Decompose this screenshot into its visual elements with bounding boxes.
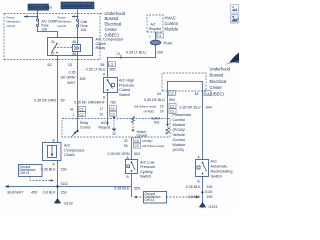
svg-text:Bussed: Bussed xyxy=(105,16,120,21)
svg-text:G102: G102 xyxy=(64,202,73,206)
svg-text:C3: C3 xyxy=(135,144,139,148)
UBEC 2 label xyxy=(210,67,231,97)
svg-text:B6: B6 xyxy=(101,63,105,67)
wire label 0.35 DK GRN/WHT 459 xyxy=(61,71,86,85)
svg-text:Compressor: Compressor xyxy=(64,148,85,152)
svg-text:C8: C8 xyxy=(68,63,72,67)
svg-text:(4T40E): (4T40E) xyxy=(144,110,154,114)
wire 59 relay 87 to compressor clutch xyxy=(57,56,59,143)
svg-text:DK GRN/: DK GRN/ xyxy=(61,76,76,80)
svg-text:0.35 BLK: 0.35 BLK xyxy=(41,168,56,172)
wire 459 relay 85 to PCM xyxy=(77,56,79,132)
wire label 0.35 DK GRN 603 xyxy=(108,152,140,156)
svg-text:C2: C2 xyxy=(170,110,174,114)
svg-text:Module: Module xyxy=(165,26,179,31)
A/C Automatic Recirculating Switch xyxy=(196,160,209,177)
svg-text:10: 10 xyxy=(160,104,164,108)
svg-text:Cell 10: Cell 10 xyxy=(7,24,16,28)
svg-text:0.35 BLK: 0.35 BLK xyxy=(186,185,201,189)
ground G103 xyxy=(200,203,218,210)
connector P100 xyxy=(150,40,172,45)
PCM terminal 20 C3 xyxy=(100,111,117,116)
relay label xyxy=(96,38,125,51)
wire label 0.35 BLK 150 xyxy=(186,185,213,189)
svg-text:Cycling: Cycling xyxy=(140,170,152,174)
fuse Cntrl 10A xyxy=(76,19,78,27)
wire label 0.35 BLK 150 xyxy=(41,168,67,172)
svg-text:30: 30 xyxy=(124,139,128,143)
PCM label xyxy=(173,112,192,152)
PCM dashed box xyxy=(62,119,170,138)
svg-text:Electrical: Electrical xyxy=(210,79,227,84)
svg-text:B3: B3 xyxy=(48,63,52,67)
UBEC box 2 dashed xyxy=(162,73,206,91)
svg-text:762: 762 xyxy=(110,101,116,105)
node B6 / C2 xyxy=(101,62,116,67)
header box HOT AT ALL TIMES xyxy=(28,4,52,10)
wire label 0.35 DK GRN 59 xyxy=(34,98,64,102)
svg-text:Clutch: Clutch xyxy=(64,153,75,157)
dashed pointer left to wire 559 xyxy=(134,196,144,198)
svg-text:0.35 DK BLU: 0.35 DK BLU xyxy=(180,106,201,110)
svg-text:(4T40E): (4T40E) xyxy=(142,139,152,143)
svg-text:0.35 BLK: 0.35 BLK xyxy=(114,187,129,191)
svg-text:A/C: A/C xyxy=(64,144,71,148)
svg-text:C3: C3 xyxy=(135,139,139,143)
svg-text:Test: Test xyxy=(154,121,160,125)
A/C High Pressure Cutout Switch xyxy=(104,78,118,93)
svg-text:(UBEC): (UBEC) xyxy=(210,91,225,96)
svg-text:A3: A3 xyxy=(157,92,161,96)
svg-text:L: L xyxy=(150,34,152,38)
wire 604 UBEC to recirculating switch xyxy=(202,97,204,160)
logo triangle (right edge) xyxy=(229,53,239,64)
svg-text:C1: C1 xyxy=(158,34,162,38)
svg-text:559: 559 xyxy=(134,187,140,191)
dashed pointer right to wire 150 xyxy=(167,196,200,198)
svg-text:C2: C2 xyxy=(111,107,115,111)
svg-text:42: 42 xyxy=(70,107,74,111)
wire 200 from P100 to cutout switch xyxy=(108,45,156,78)
svg-text:1: 1 xyxy=(73,113,75,117)
A/C request source inside HVAC module xyxy=(149,23,161,31)
PCM internal request sense line xyxy=(112,117,116,135)
svg-text:10A: 10A xyxy=(42,28,49,32)
svg-text:C3: C3 xyxy=(111,112,115,116)
svg-text:C1: C1 xyxy=(117,52,121,56)
terminal A4 C4 xyxy=(195,91,212,96)
svg-text:G103: G103 xyxy=(209,205,218,209)
wire 603 PCM to cycling switch xyxy=(131,137,133,160)
header box HOT IN RUN AND START xyxy=(61,2,94,9)
svg-text:450: 450 xyxy=(31,191,37,195)
svg-text:30: 30 xyxy=(51,40,55,44)
svg-text:0.35 DK GRN: 0.35 DK GRN xyxy=(34,98,56,102)
svg-text:Cell 14: Cell 14 xyxy=(20,171,30,175)
svg-text:Control: Control xyxy=(165,21,178,26)
svg-text:A/C High: A/C High xyxy=(119,79,134,83)
wire label 0.8 BLK 150 xyxy=(43,191,67,195)
svg-text:Electrical: Electrical xyxy=(105,22,122,27)
svg-text:Cell 14: Cell 14 xyxy=(145,198,155,202)
svg-text:0.35 DK BLU: 0.35 DK BLU xyxy=(144,98,165,102)
svg-text:HOT IN RUN AND START: HOT IN RUN AND START xyxy=(63,5,93,8)
svg-text:150: 150 xyxy=(207,185,213,189)
svg-text:Center: Center xyxy=(105,27,118,32)
svg-text:C2: C2 xyxy=(80,113,84,117)
PCM terminal 30 C3 (4T40E) xyxy=(124,138,152,143)
svg-text:604: 604 xyxy=(206,106,212,110)
svg-text:B: B xyxy=(53,138,55,142)
dashed pointer to clutch ground wire xyxy=(30,177,54,182)
splice S103 xyxy=(201,190,212,194)
svg-text:150: 150 xyxy=(61,168,67,172)
svg-text:Underhood: Underhood xyxy=(210,67,231,72)
svg-text:Switch: Switch xyxy=(119,93,130,97)
svg-text:Underhood: Underhood xyxy=(105,11,126,16)
PCM terminal (4T40E) 14 C2 xyxy=(144,109,177,114)
svg-text:WHT: WHT xyxy=(67,81,76,85)
wire cycling switch to splice xyxy=(131,174,133,198)
A/C Compressor Clutch xyxy=(43,143,62,161)
arrow to power distribution (right) xyxy=(72,15,79,17)
svg-text:Pressure: Pressure xyxy=(119,83,134,87)
svg-text:Automatic: Automatic xyxy=(211,165,228,169)
svg-text:C4: C4 xyxy=(205,92,209,96)
svg-text:0.35 LT BLU: 0.35 LT BLU xyxy=(86,68,106,72)
svg-text:HVAC: HVAC xyxy=(165,16,176,21)
svg-text:C2: C2 xyxy=(170,104,174,108)
relay mechanical dashed link xyxy=(54,47,72,49)
svg-text:59: 59 xyxy=(61,98,65,102)
inline connector C1 xyxy=(117,52,122,59)
svg-text:0.35 LT BLU: 0.35 LT BLU xyxy=(126,50,146,54)
PCM terminal 1 C2 xyxy=(73,112,86,117)
arrow to power distribution (left) xyxy=(24,15,38,17)
wire label 0.35 DK BLU 594 xyxy=(144,98,175,102)
wire recirc switch to ground G103 xyxy=(202,177,204,203)
wire clutch to splice S102 xyxy=(57,161,59,199)
svg-text:Pressure: Pressure xyxy=(140,165,155,169)
svg-text:Center: Center xyxy=(210,85,223,90)
svg-text:Request: Request xyxy=(99,125,111,129)
svg-text:0.35: 0.35 xyxy=(69,71,76,75)
HVAC Control Module dashed box xyxy=(147,15,163,32)
PCM terminal 55 C3 (All Others Used) xyxy=(124,143,164,148)
svg-text:(UBEC): (UBEC) xyxy=(105,32,120,37)
svg-text:S102: S102 xyxy=(61,182,69,186)
svg-text:14: 14 xyxy=(160,110,164,114)
wire label 0.35 DK GRN/WHT 762 xyxy=(74,101,116,105)
PCM terminal 17 C2 xyxy=(100,106,117,111)
ground G102 xyxy=(55,199,73,206)
relay coil xyxy=(73,38,81,56)
svg-text:(All Others Used): (All Others Used) xyxy=(134,104,156,108)
ground distribution reference box (right) xyxy=(144,192,167,204)
wire 594 UBEC to PCM switch test xyxy=(167,97,169,125)
svg-text:BLK/WHT: BLK/WHT xyxy=(8,191,25,195)
ground distribution reference box (left) xyxy=(19,165,43,177)
jumper wire inside UBEC 2 xyxy=(168,82,203,97)
wire from HOT IN RUN bus to fuse 2 xyxy=(77,10,79,20)
svg-text:A4: A4 xyxy=(195,92,199,96)
svg-text:Cell 10: Cell 10 xyxy=(58,24,67,28)
svg-text:200: 200 xyxy=(157,50,163,54)
svg-text:17: 17 xyxy=(100,107,104,111)
svg-text:655: 655 xyxy=(110,68,116,72)
label Power Distribution Cell 10 (right) xyxy=(58,15,72,28)
wire label 0.35 DK BLU 604 xyxy=(180,106,212,110)
wire HVAC module down to P100 xyxy=(155,32,157,40)
svg-text:86: 86 xyxy=(73,40,77,44)
PCM relay control driver xyxy=(72,121,91,137)
wire label 0.35 LT BLU 200 xyxy=(126,50,163,54)
svg-text:10A: 10A xyxy=(81,28,88,32)
UBEC box 1 dashed border xyxy=(4,14,103,60)
svg-text:20: 20 xyxy=(100,112,104,116)
svg-text:HOT AT ALL TIMES: HOT AT ALL TIMES xyxy=(29,7,52,10)
svg-text:603: 603 xyxy=(134,152,140,156)
wire label 0.35 BLK 559 xyxy=(114,187,140,191)
pin L connector C1 label xyxy=(150,33,164,38)
relay switch blade xyxy=(52,43,58,54)
svg-text:Recirculating: Recirculating xyxy=(211,170,233,174)
svg-text:A/C: A/C xyxy=(211,160,218,164)
wire label 0.35 LT BLU 655 xyxy=(86,68,116,72)
svg-text:B: B xyxy=(198,179,200,183)
svg-text:B: B xyxy=(127,175,129,179)
svg-text:Relay: Relay xyxy=(96,46,106,50)
svg-text:Ground: Ground xyxy=(137,134,148,138)
wire fuse2 to relay terminal 86 xyxy=(77,27,79,38)
ground bus wire to left arrow xyxy=(5,185,132,188)
PCM a/c request input xyxy=(99,121,111,129)
svg-text:594: 594 xyxy=(169,98,175,102)
HVAC Control Module label xyxy=(165,16,179,32)
svg-text:Cutout: Cutout xyxy=(119,88,131,92)
page icon 1 (top right) xyxy=(231,5,239,14)
svg-text:Switch: Switch xyxy=(140,175,151,179)
svg-text:459: 459 xyxy=(80,77,86,81)
svg-text:150: 150 xyxy=(207,195,213,199)
svg-text:Bussed: Bussed xyxy=(210,73,225,78)
label Underhood Bussed Electrical Center (UBEC) top xyxy=(105,11,126,38)
bus label BLK/WHT 450 xyxy=(8,191,38,195)
A/C Low Pressure Cycling Switch xyxy=(126,160,138,174)
svg-text:B: B xyxy=(103,95,105,99)
fuse A/C COMP 10A xyxy=(36,19,38,27)
svg-text:0.8 BLK: 0.8 BLK xyxy=(43,191,56,195)
wire from HOT AT ALL TIMES bus to fuse xyxy=(37,10,39,19)
wire label 2.8 BLK 150 xyxy=(188,195,213,199)
page icon 2 (top right) xyxy=(231,15,239,24)
PCM terminal 42 C2 xyxy=(70,106,86,111)
label Power Distribution Cell 10 (left) xyxy=(7,15,21,28)
svg-text:150: 150 xyxy=(61,191,67,195)
svg-text:Request: Request xyxy=(149,27,161,31)
svg-text:(All Others Used): (All Others Used) xyxy=(142,144,164,148)
svg-text:85: 85 xyxy=(73,52,77,56)
svg-text:Switch: Switch xyxy=(211,175,222,179)
wire 762 cutout switch to PCM xyxy=(107,93,109,126)
relay A/C Compressor Clutch Relay box xyxy=(48,38,93,56)
PCM internal resistor to switch ground xyxy=(132,117,148,138)
svg-text:Control: Control xyxy=(80,125,91,129)
svg-text:S103: S103 xyxy=(205,190,213,194)
svg-text:55: 55 xyxy=(124,144,128,148)
wire fuse1 to relay terminal 30 xyxy=(38,27,58,38)
svg-text:C2: C2 xyxy=(110,63,114,67)
terminal A3 C2 xyxy=(157,91,176,96)
svg-text:C2: C2 xyxy=(170,92,174,96)
PCM terminal (All Others Used) 10 C2 xyxy=(134,103,176,108)
svg-text:(VCM): (VCM) xyxy=(173,147,185,152)
svg-text:A/C Low: A/C Low xyxy=(140,161,155,165)
PCM switch test input xyxy=(151,117,169,135)
svg-text:P100: P100 xyxy=(164,41,172,45)
svg-text:C2: C2 xyxy=(80,107,84,111)
splice S102 xyxy=(56,185,58,187)
svg-text:0.35 DK GRN/WHT: 0.35 DK GRN/WHT xyxy=(74,101,106,105)
